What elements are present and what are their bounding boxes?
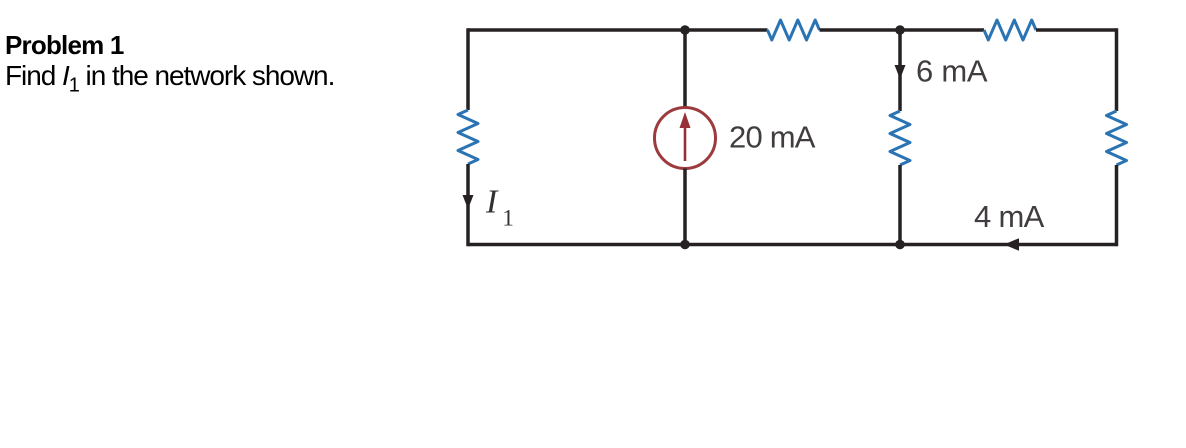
wire top-right: R2 to top-right corner [1036,28,1117,32]
resistor R3 (left branch, vertical) [458,110,478,164]
wire left branch lower with I1 [466,164,470,246]
wire middle branch upper (current source top lead) [683,30,687,108]
arrow 6 mA (pointing down on third branch) [895,65,906,79]
wire middle branch lower (current source bottom lead) [683,169,687,245]
wire third branch upper with 6 mA arrow [898,30,902,111]
node dot A (top, current source branch) [680,25,690,35]
svg-text:I1: I1 [485,184,514,231]
resistor R2 (top right, horizontal) [984,20,1036,40]
current source CS1 (20 mA) circle [655,108,716,169]
wire top-left: top-left corner to node A [468,28,768,32]
resistor R4 (third branch, vertical) [890,111,910,165]
resistor R1 (top middle, horizontal) [768,20,820,40]
wire top-middle: R1 to node B [820,28,985,32]
wire third branch lower [898,165,902,245]
node dot C (bottom, current source branch) [680,240,690,250]
current source CS1 arrow head (up) [680,112,691,128]
node dot D (bottom, third branch) [895,240,905,250]
wire left branch upper [466,28,470,110]
resistor R5 (right branch, vertical) [1107,111,1127,165]
wire bottom [468,243,1117,247]
problem title text [5,30,334,102]
node dot B (top, third branch) [895,25,905,35]
svg-text:6 mA: 6 mA [916,54,988,89]
current source CS1 arrow shaft [684,127,687,161]
arrow 4 mA (pointing left on bottom wire) [1004,238,1019,251]
svg-text:4 mA: 4 mA [974,199,1045,234]
wire right branch lower [1115,165,1119,246]
arrow I1 (pointing down on left branch) [463,195,474,209]
svg-text:20 mA: 20 mA [729,120,816,155]
wire right branch upper [1115,28,1119,111]
